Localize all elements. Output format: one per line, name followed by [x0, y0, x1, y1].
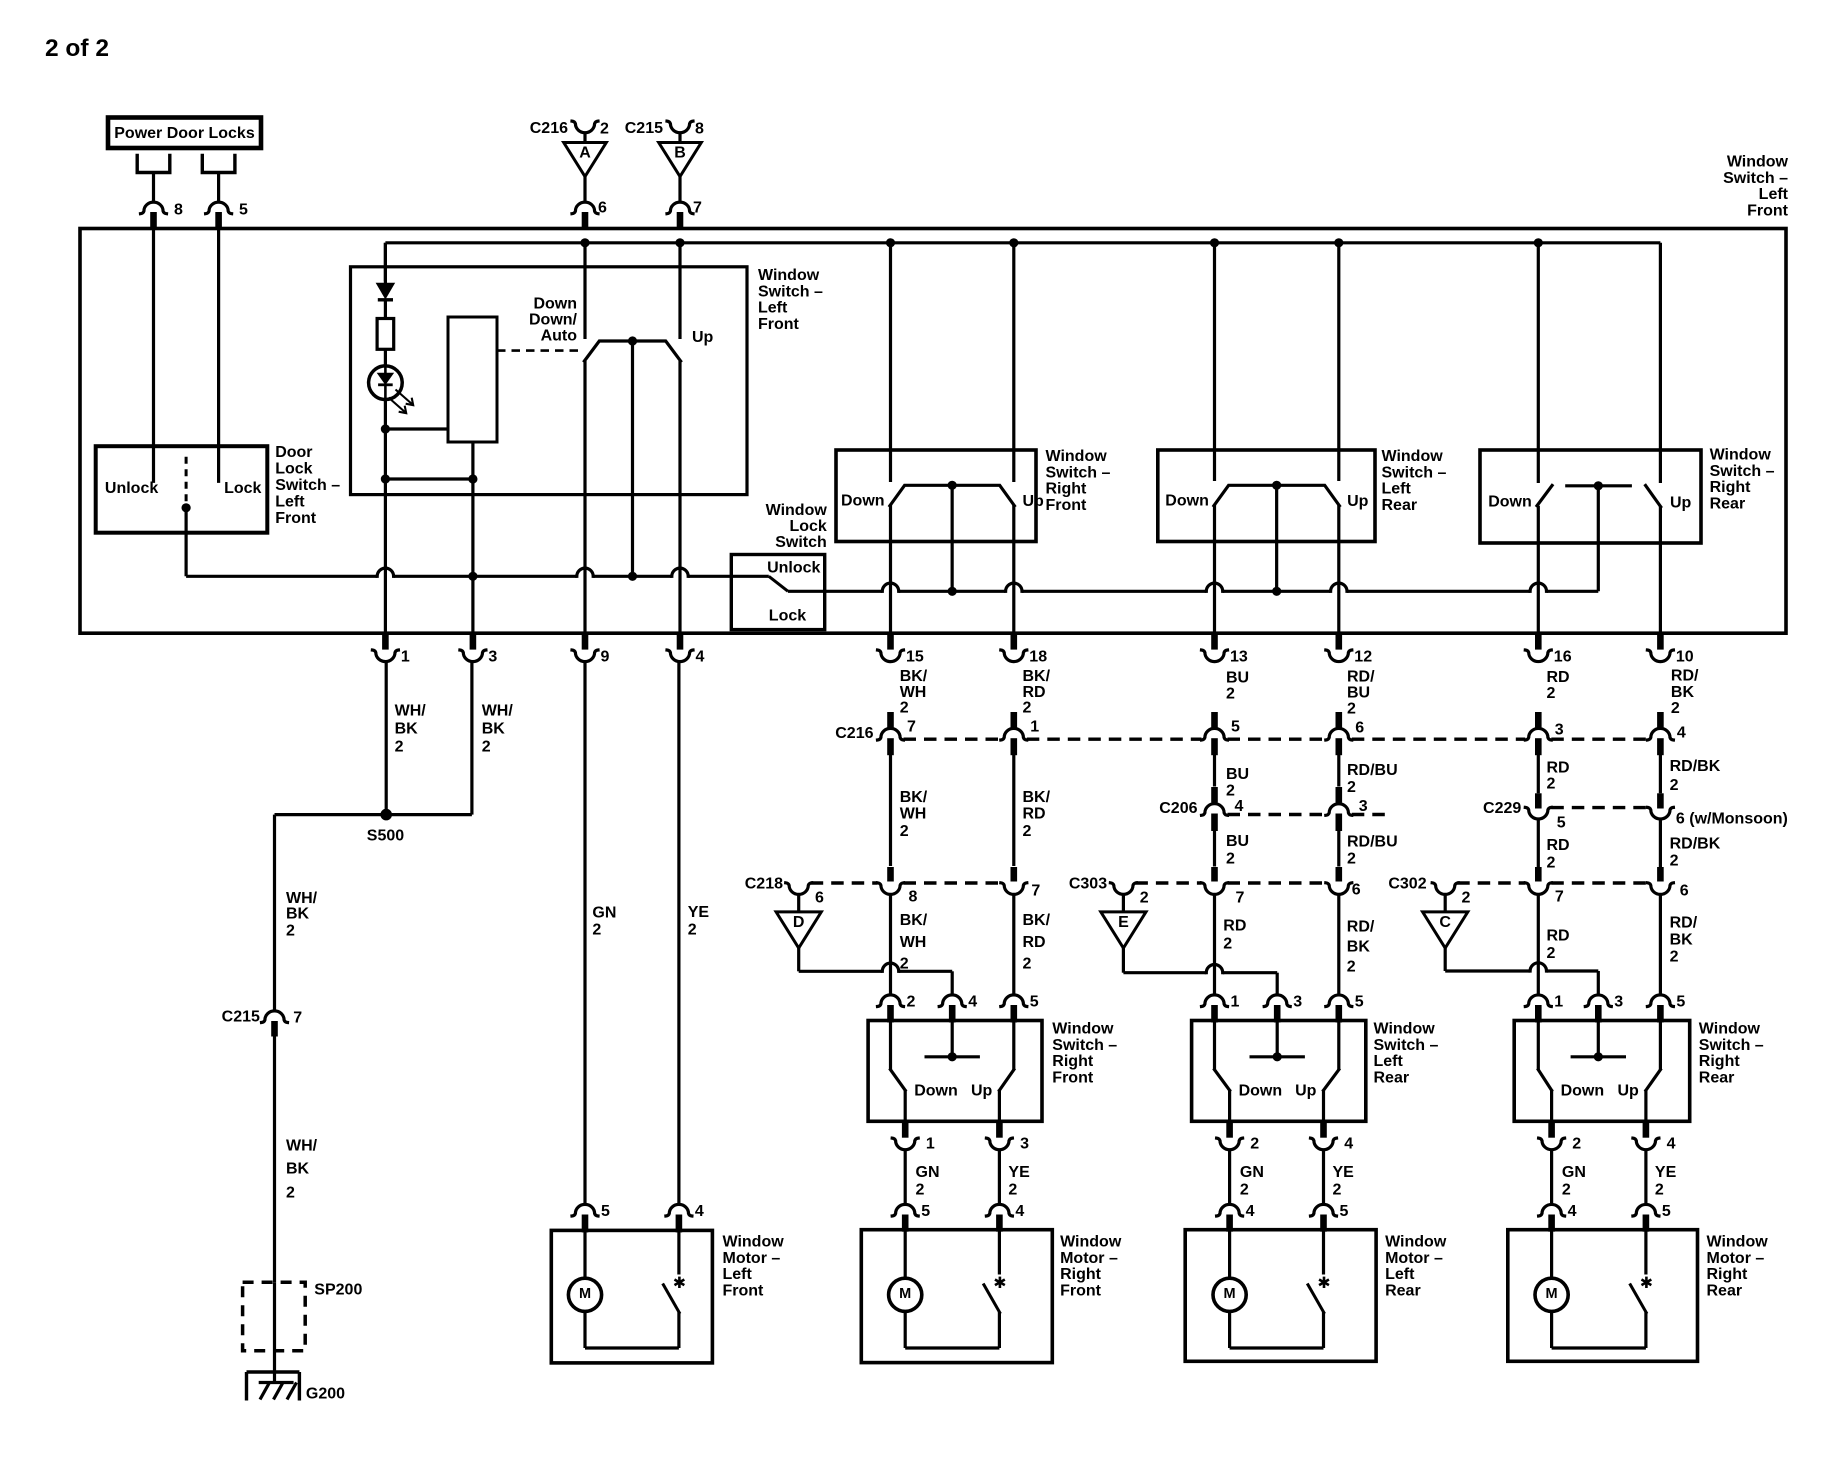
svg-text:Window: Window — [1727, 154, 1789, 171]
svg-text:Motor –: Motor – — [1385, 1250, 1443, 1267]
svg-text:3: 3 — [1020, 1136, 1029, 1153]
svg-text:8: 8 — [909, 888, 918, 905]
svg-text:1: 1 — [401, 649, 410, 666]
svg-text:3: 3 — [1293, 993, 1302, 1010]
svg-text:RD: RD — [1023, 806, 1046, 823]
svg-text:4: 4 — [696, 649, 705, 666]
svg-text:13: 13 — [1230, 649, 1248, 666]
svg-text:2: 2 — [1347, 959, 1356, 976]
svg-text:2: 2 — [1347, 701, 1356, 718]
svg-text:6: 6 — [815, 890, 824, 907]
svg-text:Lock: Lock — [275, 461, 312, 478]
svg-text:Window: Window — [1374, 1021, 1436, 1038]
svg-text:10: 10 — [1676, 649, 1694, 666]
svg-text:6: 6 — [1355, 720, 1364, 737]
svg-text:Switch –: Switch – — [275, 477, 340, 494]
svg-text:Switch –: Switch – — [1374, 1037, 1439, 1054]
svg-text:Rear: Rear — [1707, 1282, 1743, 1299]
svg-text:Switch: Switch — [775, 534, 827, 551]
svg-text:Front: Front — [1052, 1069, 1094, 1086]
svg-text:S500: S500 — [367, 828, 404, 845]
svg-text:5: 5 — [1340, 1203, 1349, 1220]
svg-text:BK/: BK/ — [1023, 789, 1051, 806]
svg-text:WH/: WH/ — [482, 703, 514, 720]
svg-text:8: 8 — [174, 202, 183, 219]
svg-text:Power Door Locks: Power Door Locks — [114, 125, 255, 142]
svg-text:2: 2 — [907, 993, 916, 1010]
svg-text:2 of 2: 2 of 2 — [45, 35, 109, 62]
svg-text:Front: Front — [1060, 1282, 1102, 1299]
svg-text:Up: Up — [1618, 1083, 1640, 1100]
svg-text:RD: RD — [1547, 759, 1570, 776]
svg-text:2: 2 — [1671, 700, 1680, 717]
svg-text:BK: BK — [286, 1161, 310, 1178]
svg-text:2: 2 — [1562, 1182, 1571, 1199]
svg-text:Front: Front — [723, 1282, 765, 1299]
svg-text:RD/BU: RD/BU — [1347, 834, 1398, 851]
svg-text:3: 3 — [1614, 993, 1623, 1010]
svg-text:2: 2 — [1347, 851, 1356, 868]
svg-text:BK: BK — [1670, 932, 1694, 949]
svg-text:RD/BU: RD/BU — [1347, 762, 1398, 779]
svg-text:2: 2 — [900, 823, 909, 840]
svg-text:6: 6 — [1680, 883, 1689, 900]
svg-text:Right: Right — [1052, 1053, 1094, 1070]
svg-text:A: A — [579, 144, 591, 161]
svg-text:Down: Down — [841, 493, 885, 510]
svg-text:2: 2 — [900, 700, 909, 717]
svg-text:2: 2 — [600, 121, 609, 138]
svg-text:16: 16 — [1554, 649, 1572, 666]
svg-text:6 (w/Monsoon): 6 (w/Monsoon) — [1676, 811, 1788, 828]
svg-text:BK: BK — [482, 721, 506, 738]
svg-text:BK/: BK/ — [900, 789, 928, 806]
svg-text:12: 12 — [1354, 649, 1372, 666]
svg-text:6: 6 — [1352, 882, 1361, 899]
svg-text:BK: BK — [395, 721, 419, 738]
svg-text:Lock: Lock — [224, 480, 261, 497]
svg-text:C216: C216 — [530, 120, 568, 137]
svg-text:Switch –: Switch – — [1723, 170, 1788, 187]
svg-text:Front: Front — [758, 316, 800, 333]
svg-text:BK: BK — [286, 906, 310, 923]
svg-text:Rear: Rear — [1699, 1069, 1735, 1086]
svg-text:BK: BK — [1671, 684, 1695, 701]
svg-text:2: 2 — [1333, 1182, 1342, 1199]
svg-text:2: 2 — [1226, 783, 1235, 800]
svg-text:Unlock: Unlock — [767, 559, 820, 576]
svg-text:2: 2 — [1670, 777, 1679, 794]
svg-text:Right: Right — [1060, 1266, 1102, 1283]
svg-text:1: 1 — [1231, 993, 1240, 1010]
svg-text:2: 2 — [286, 923, 295, 940]
svg-text:Auto: Auto — [541, 328, 578, 345]
svg-text:BU: BU — [1347, 685, 1370, 702]
svg-text:6: 6 — [598, 200, 607, 217]
svg-text:4: 4 — [1667, 1136, 1676, 1153]
svg-text:2: 2 — [1140, 890, 1149, 907]
svg-text:9: 9 — [601, 649, 610, 666]
svg-text:Up: Up — [692, 329, 714, 346]
svg-text:C218: C218 — [745, 875, 783, 892]
svg-text:1: 1 — [1554, 993, 1563, 1010]
svg-text:Switch –: Switch – — [1382, 464, 1447, 481]
svg-text:4: 4 — [1246, 1203, 1255, 1220]
svg-text:5: 5 — [1030, 993, 1039, 1010]
svg-text:Up: Up — [1023, 493, 1045, 510]
svg-text:2: 2 — [1670, 949, 1679, 966]
svg-text:2: 2 — [1023, 956, 1032, 973]
svg-text:GN: GN — [1562, 1164, 1586, 1181]
svg-text:YE: YE — [688, 904, 710, 921]
svg-text:Right: Right — [1707, 1266, 1749, 1283]
svg-text:3: 3 — [1555, 722, 1564, 739]
svg-text:5: 5 — [601, 1203, 610, 1220]
svg-text:Switch –: Switch – — [1046, 464, 1111, 481]
svg-text:5: 5 — [1355, 993, 1364, 1010]
svg-text:WH: WH — [900, 684, 927, 701]
svg-text:2: 2 — [1226, 850, 1235, 867]
svg-text:Lock: Lock — [769, 607, 806, 624]
svg-text:2: 2 — [286, 1185, 295, 1202]
svg-text:BK/: BK/ — [900, 668, 928, 685]
svg-text:Window: Window — [1046, 448, 1108, 465]
svg-text:15: 15 — [906, 649, 924, 666]
svg-text:5: 5 — [921, 1203, 930, 1220]
svg-text:2: 2 — [1347, 779, 1356, 796]
svg-text:WH/: WH/ — [286, 1138, 318, 1155]
svg-text:BU: BU — [1226, 766, 1249, 783]
svg-text:Window: Window — [723, 1234, 785, 1251]
svg-text:2: 2 — [688, 922, 697, 939]
svg-text:Motor –: Motor – — [723, 1250, 781, 1267]
svg-text:Motor –: Motor – — [1060, 1250, 1118, 1267]
svg-text:2: 2 — [1547, 945, 1556, 962]
svg-text:5: 5 — [239, 202, 248, 219]
svg-text:BK/: BK/ — [1023, 668, 1051, 685]
svg-text:C215: C215 — [222, 1009, 260, 1026]
svg-text:GN: GN — [916, 1164, 940, 1181]
svg-text:BK: BK — [1347, 939, 1371, 956]
svg-text:Up: Up — [1670, 495, 1692, 512]
svg-text:SP200: SP200 — [314, 1282, 362, 1299]
svg-text:Up: Up — [1347, 493, 1369, 510]
svg-text:Left: Left — [275, 494, 305, 511]
svg-text:RD: RD — [1547, 669, 1570, 686]
svg-text:RD/BK: RD/BK — [1670, 836, 1721, 853]
svg-text:M: M — [1224, 1286, 1236, 1302]
svg-text:Up: Up — [971, 1083, 993, 1100]
svg-text:Down/: Down/ — [529, 312, 578, 329]
svg-text:Window: Window — [1699, 1021, 1761, 1038]
svg-text:WH: WH — [900, 934, 927, 951]
svg-text:7: 7 — [907, 719, 916, 736]
svg-text:Lock: Lock — [789, 518, 826, 535]
svg-text:Window: Window — [1382, 448, 1444, 465]
svg-text:Up: Up — [1295, 1083, 1317, 1100]
svg-text:RD/: RD/ — [1670, 915, 1698, 932]
svg-text:Down: Down — [1488, 494, 1532, 511]
svg-text:Window: Window — [1052, 1021, 1114, 1038]
svg-text:2: 2 — [1572, 1136, 1581, 1153]
svg-text:GN: GN — [1240, 1164, 1264, 1181]
svg-text:BU: BU — [1226, 670, 1249, 687]
svg-text:Window: Window — [758, 267, 820, 284]
svg-text:7: 7 — [1236, 890, 1245, 907]
svg-text:2: 2 — [482, 739, 491, 756]
svg-text:E: E — [1118, 914, 1129, 931]
svg-text:2: 2 — [592, 922, 601, 939]
svg-text:C303: C303 — [1069, 875, 1107, 892]
svg-text:2: 2 — [1023, 700, 1032, 717]
svg-text:4: 4 — [1344, 1136, 1353, 1153]
svg-text:M: M — [1546, 1286, 1558, 1302]
svg-text:5: 5 — [1557, 815, 1566, 832]
svg-text:3: 3 — [488, 649, 497, 666]
svg-text:C206: C206 — [1159, 800, 1197, 817]
svg-text:Window: Window — [766, 502, 828, 519]
svg-text:WH: WH — [900, 806, 927, 823]
svg-text:RD: RD — [1023, 934, 1046, 951]
svg-text:WH/: WH/ — [286, 890, 318, 907]
svg-text:C216: C216 — [835, 725, 873, 742]
svg-text:YE: YE — [1008, 1164, 1030, 1181]
svg-text:Left: Left — [723, 1266, 753, 1283]
svg-text:G200: G200 — [306, 1386, 345, 1403]
svg-text:2: 2 — [1547, 685, 1556, 702]
svg-text:7: 7 — [1555, 889, 1564, 906]
svg-text:4: 4 — [968, 993, 977, 1010]
svg-text:BK/: BK/ — [900, 912, 928, 929]
svg-text:Down: Down — [1239, 1083, 1283, 1100]
svg-text:Motor –: Motor – — [1707, 1250, 1765, 1267]
svg-text:4: 4 — [1015, 1203, 1024, 1220]
svg-text:4: 4 — [1235, 798, 1244, 815]
svg-text:Switch –: Switch – — [758, 283, 823, 300]
svg-text:4: 4 — [1677, 725, 1686, 742]
svg-text:2: 2 — [1023, 823, 1032, 840]
svg-text:2: 2 — [1547, 776, 1556, 793]
svg-text:RD/: RD/ — [1347, 669, 1375, 686]
svg-text:Right: Right — [1699, 1053, 1741, 1070]
svg-text:7: 7 — [693, 200, 702, 217]
svg-text:Left: Left — [1385, 1266, 1415, 1283]
svg-text:Left: Left — [1374, 1053, 1404, 1070]
svg-text:5: 5 — [1662, 1203, 1671, 1220]
svg-text:C302: C302 — [1388, 875, 1426, 892]
svg-text:Rear: Rear — [1382, 497, 1418, 514]
svg-text:2: 2 — [1670, 853, 1679, 870]
svg-text:RD/: RD/ — [1671, 668, 1699, 685]
svg-text:Right: Right — [1046, 481, 1088, 498]
svg-text:Front: Front — [1046, 497, 1088, 514]
svg-text:Right: Right — [1710, 479, 1752, 496]
svg-text:7: 7 — [293, 1009, 302, 1026]
svg-text:D: D — [793, 914, 805, 931]
svg-text:2: 2 — [1250, 1136, 1259, 1153]
svg-text:M: M — [579, 1286, 591, 1302]
svg-text:Down: Down — [1561, 1083, 1605, 1100]
svg-text:2: 2 — [1008, 1182, 1017, 1199]
svg-text:2: 2 — [395, 739, 404, 756]
svg-text:WH/: WH/ — [395, 703, 427, 720]
svg-text:3: 3 — [1359, 798, 1368, 815]
svg-text:Switch –: Switch – — [1052, 1037, 1117, 1054]
svg-text:RD/BK: RD/BK — [1670, 758, 1721, 775]
svg-text:Switch –: Switch – — [1699, 1037, 1764, 1054]
svg-text:5: 5 — [1231, 719, 1240, 736]
svg-text:2: 2 — [1547, 855, 1556, 872]
svg-text:Front: Front — [1747, 202, 1789, 219]
svg-text:Rear: Rear — [1710, 495, 1746, 512]
svg-text:1: 1 — [926, 1136, 935, 1153]
svg-text:C215: C215 — [625, 120, 663, 137]
svg-text:2: 2 — [900, 956, 909, 973]
svg-text:Unlock: Unlock — [105, 480, 158, 497]
svg-text:2: 2 — [1240, 1182, 1249, 1199]
svg-text:Window: Window — [1707, 1234, 1769, 1251]
svg-text:Left: Left — [758, 300, 788, 317]
svg-text:Door: Door — [275, 444, 312, 461]
svg-text:1: 1 — [1030, 719, 1039, 736]
svg-text:Left: Left — [1759, 186, 1789, 203]
svg-text:7: 7 — [1031, 883, 1040, 900]
svg-text:YE: YE — [1655, 1164, 1677, 1181]
svg-text:RD: RD — [1547, 928, 1570, 945]
svg-text:Down: Down — [1165, 493, 1209, 510]
svg-text:8: 8 — [695, 121, 704, 138]
svg-text:Switch –: Switch – — [1710, 463, 1775, 480]
svg-text:Rear: Rear — [1374, 1069, 1410, 1086]
svg-text:BU: BU — [1226, 833, 1249, 850]
svg-text:GN: GN — [592, 905, 616, 922]
svg-text:Down: Down — [533, 296, 577, 313]
svg-text:4: 4 — [695, 1203, 704, 1220]
svg-text:2: 2 — [1223, 936, 1232, 953]
svg-text:BK/: BK/ — [1023, 912, 1051, 929]
svg-text:RD: RD — [1223, 918, 1246, 935]
svg-text:RD: RD — [1023, 684, 1046, 701]
svg-text:Down: Down — [914, 1083, 958, 1100]
svg-text:5: 5 — [1676, 993, 1685, 1010]
svg-text:2: 2 — [916, 1182, 925, 1199]
svg-text:B: B — [674, 144, 686, 161]
svg-text:C229: C229 — [1483, 800, 1521, 817]
svg-text:YE: YE — [1333, 1164, 1355, 1181]
svg-text:Window: Window — [1710, 447, 1772, 464]
svg-text:2: 2 — [1226, 686, 1235, 703]
svg-text:18: 18 — [1029, 649, 1047, 666]
svg-text:Window: Window — [1060, 1234, 1122, 1251]
svg-text:2: 2 — [1462, 890, 1471, 907]
svg-text:C: C — [1439, 914, 1451, 931]
svg-text:M: M — [899, 1286, 911, 1302]
svg-text:2: 2 — [1655, 1182, 1664, 1199]
svg-text:4: 4 — [1568, 1203, 1577, 1220]
svg-text:Front: Front — [275, 510, 317, 527]
svg-text:Left: Left — [1382, 481, 1412, 498]
svg-text:RD/: RD/ — [1347, 919, 1375, 936]
svg-text:Window: Window — [1385, 1234, 1447, 1251]
svg-text:Rear: Rear — [1385, 1282, 1421, 1299]
svg-text:RD: RD — [1547, 837, 1570, 854]
